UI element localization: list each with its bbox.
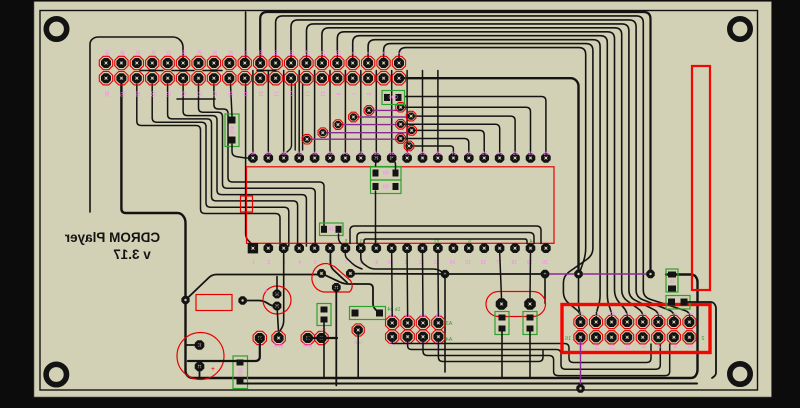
wire dense bundle line 2 xyxy=(294,84,296,150)
svg-text:10: 10 xyxy=(388,260,394,266)
svg-text:7: 7 xyxy=(350,92,356,95)
svg-text:14: 14 xyxy=(593,344,599,350)
IC U1 top row pads xyxy=(248,153,551,163)
wire gnd left link xyxy=(188,338,260,361)
svg-text:33: 33 xyxy=(149,91,155,97)
LED column pad 1 with red ring xyxy=(396,102,406,112)
svg-text:Y1: Y1 xyxy=(433,239,439,245)
resistor R3 xyxy=(317,304,331,326)
resistor R5 xyxy=(523,312,537,335)
wire purple net bottom xyxy=(542,273,651,275)
resistor R4 xyxy=(495,312,509,335)
svg-text:3: 3 xyxy=(360,239,363,245)
wire vertical net to IC pin 35 xyxy=(329,71,331,153)
svg-text:29: 29 xyxy=(180,91,186,97)
wire elbow to IC pin 21 xyxy=(405,97,546,153)
wire dense bundle line 1 xyxy=(287,84,292,152)
wire junction E stub down xyxy=(544,274,546,303)
svg-text:11: 11 xyxy=(609,311,615,316)
svg-text:30: 30 xyxy=(180,50,186,56)
LED D1 pad with red ring xyxy=(302,134,312,144)
wire purple trace LED2 xyxy=(323,132,412,134)
wire purple trace LED3 xyxy=(338,124,401,126)
svg-text:13: 13 xyxy=(593,311,599,317)
LED D4 pad with red ring xyxy=(349,112,359,122)
wire left long net from header col2 xyxy=(121,84,697,378)
svg-text:9: 9 xyxy=(375,260,378,266)
svg-text:36: 36 xyxy=(134,50,140,56)
IC U1 pin1 notch xyxy=(241,196,253,212)
wire 1k stub xyxy=(339,234,345,246)
wire X1 col4 up xyxy=(437,253,440,316)
wire vertical net to IC pin 33 xyxy=(360,71,362,153)
svg-text:gnd: gnd xyxy=(274,343,283,349)
wire purple trace LED4 xyxy=(353,116,411,118)
wire vertical net to IC pin 36 xyxy=(314,71,316,153)
wire staircase trace col8 xyxy=(214,84,324,227)
resistor R6 xyxy=(666,269,678,292)
node junction C xyxy=(574,270,582,278)
svg-text:40: 40 xyxy=(103,50,109,56)
LED D3 pad with red ring xyxy=(333,120,343,130)
wire bottom power trace xyxy=(240,383,697,385)
wire X1 col1 down bundle xyxy=(392,342,651,363)
svg-text:10k: 10k xyxy=(229,126,235,135)
wire X1 col4 down bundle xyxy=(438,342,543,362)
wire staircase trace col5 xyxy=(168,84,298,246)
svg-text:12: 12 xyxy=(419,260,425,266)
svg-text:7: 7 xyxy=(344,260,347,266)
resistor R10 00 xyxy=(371,167,402,181)
svg-text:A4: A4 xyxy=(446,337,453,343)
LED column pad 4 with red ring xyxy=(407,126,417,136)
svg-text:4: 4 xyxy=(298,260,301,266)
svg-text:31: 31 xyxy=(165,91,171,97)
svg-text:7: 7 xyxy=(640,312,646,315)
wire bus top trace 10 xyxy=(399,48,586,274)
mounting hole bottom-left xyxy=(46,364,66,384)
wire bus top trace 1 xyxy=(260,12,650,274)
wire IC pin7 merge xyxy=(345,251,362,269)
svg-text:gnd: gnd xyxy=(303,343,312,349)
wire purple trace LED5 xyxy=(369,109,401,111)
svg-text:16: 16 xyxy=(288,50,294,56)
resistor R11 00 xyxy=(371,180,402,194)
svg-text:38: 38 xyxy=(281,151,287,157)
wire bus top trace 3 xyxy=(291,20,674,322)
mounting hole bottom-right xyxy=(730,364,750,384)
LED column pad 3 with red ring xyxy=(396,120,406,130)
wire vertical net to IC pin 28 xyxy=(437,71,439,153)
svg-text:11: 11 xyxy=(319,91,325,96)
LED D5 pad with red ring xyxy=(364,106,374,116)
svg-text:25: 25 xyxy=(211,91,217,97)
IC U1 top pin labels xyxy=(250,151,549,157)
svg-text:00: 00 xyxy=(383,184,389,190)
wire C3 pad1 up xyxy=(500,253,502,298)
wire C3 pad2 up xyxy=(529,253,532,298)
wire C2 down xyxy=(277,306,279,333)
svg-text:31: 31 xyxy=(389,151,395,157)
svg-text:16: 16 xyxy=(565,336,571,342)
svg-text:20: 20 xyxy=(257,50,263,56)
svg-text:23: 23 xyxy=(512,151,518,157)
svg-text:1k: 1k xyxy=(669,279,675,285)
transistor Q1 outline xyxy=(312,263,352,292)
svg-text:22: 22 xyxy=(528,151,534,157)
connector X1 labels top xyxy=(389,314,441,320)
svg-text:+: + xyxy=(264,288,268,295)
connector J2 labels top xyxy=(578,311,693,317)
gnd cluster labels xyxy=(258,343,322,349)
wire bus top trace 9 xyxy=(384,44,593,322)
wire staircase trace col7 xyxy=(199,84,316,246)
wire out down xyxy=(357,335,359,378)
wire vertical net to IC pin 29 xyxy=(422,71,424,153)
resistor R7 xyxy=(666,296,690,310)
svg-text:2: 2 xyxy=(686,345,692,348)
wire Q1 collector right xyxy=(350,273,445,275)
resistor R9 000 xyxy=(382,91,405,105)
mounting hole top-right xyxy=(730,19,750,39)
svg-text:5: 5 xyxy=(365,92,371,95)
svg-text:9: 9 xyxy=(624,312,630,315)
svg-text:32: 32 xyxy=(165,50,171,56)
wire vertical net to IC pin 38 xyxy=(283,71,285,153)
wire elbow to IC pin 24 xyxy=(401,124,500,152)
connector J2 bottom row pads xyxy=(574,331,696,344)
IC U1 bottom row pads xyxy=(248,243,551,253)
svg-text:2: 2 xyxy=(396,51,402,54)
wire bus top trace 8 xyxy=(368,40,600,322)
node junction B xyxy=(441,270,449,278)
svg-text:5: 5 xyxy=(655,312,661,315)
svg-text:35: 35 xyxy=(327,151,333,157)
svg-text:25: 25 xyxy=(481,151,487,157)
svg-text:13: 13 xyxy=(434,260,440,266)
svg-text:CDROM Player: CDROM Player xyxy=(64,230,160,245)
svg-text:13: 13 xyxy=(304,91,310,97)
wire junction C down to J2 pin1 xyxy=(579,274,581,321)
wire header col10 down xyxy=(246,84,253,245)
svg-text:10: 10 xyxy=(624,344,630,350)
svg-text:26: 26 xyxy=(211,50,217,56)
wire vertical net to IC pin 32 xyxy=(375,71,377,153)
node junction E xyxy=(541,270,549,278)
connector J2 labels bottom xyxy=(578,344,693,350)
wire X1 col3 down bundle xyxy=(423,342,670,376)
wire C2 up xyxy=(276,277,278,295)
svg-text:100: 100 xyxy=(237,368,243,377)
svg-text:6: 6 xyxy=(468,239,471,245)
wire elbow to IC pin 26 xyxy=(401,139,469,153)
svg-text:A3: A3 xyxy=(446,321,453,327)
wire bus top trace 6 xyxy=(337,32,627,322)
svg-text:1k x4: 1k x4 xyxy=(387,307,400,313)
wire R3 down xyxy=(323,322,325,378)
header J1 bottom row pads with red rings xyxy=(99,72,405,85)
svg-text:-: - xyxy=(320,343,322,349)
wire C1 bottom link xyxy=(199,367,201,379)
wire transistor diag to R2 xyxy=(322,273,379,312)
LED column pad 6 with red ring xyxy=(404,141,414,151)
wire dense bundle line 3 xyxy=(302,84,304,150)
connector J2 thick outline xyxy=(562,305,710,353)
wire R8 up link xyxy=(231,84,233,116)
wire IC interior elbow 3 xyxy=(364,239,527,244)
svg-text:5: 5 xyxy=(314,260,317,266)
svg-text:20: 20 xyxy=(542,260,548,266)
capacitor C1 outline big xyxy=(177,333,224,380)
svg-text:12: 12 xyxy=(609,344,615,350)
connector X1 pads 4x2 with red rings xyxy=(386,316,446,343)
resistor R1 100 xyxy=(233,356,248,389)
svg-text:15: 15 xyxy=(465,260,471,266)
svg-text:18: 18 xyxy=(273,50,279,56)
wire vertical net to IC pin 34 xyxy=(344,71,346,153)
svg-text:38: 38 xyxy=(118,50,124,56)
svg-text:40: 40 xyxy=(250,151,256,157)
svg-text:14: 14 xyxy=(304,50,310,56)
IC U1 bottom pin labels xyxy=(252,260,548,266)
wire X1 col2 up xyxy=(406,253,409,316)
svg-text:5: 5 xyxy=(344,239,347,245)
wire IC pin3 down to gnd pad xyxy=(279,251,284,333)
wire net junction to transistor xyxy=(186,275,319,301)
wire X1 col2 down bundle xyxy=(408,342,661,369)
svg-text:000: 000 xyxy=(389,95,398,101)
wire IC interior elbow 1 xyxy=(350,226,541,244)
svg-text:24: 24 xyxy=(497,151,503,157)
svg-text:37: 37 xyxy=(118,91,124,97)
wire bus top trace 2 xyxy=(276,16,690,322)
wire vertical net to IC pin 30 xyxy=(406,71,408,153)
wire right net to purple junction xyxy=(445,273,542,275)
IC U1 green net labels above bottom pads xyxy=(344,239,532,245)
wire purple trace LED1 xyxy=(307,138,401,140)
wire junction B down xyxy=(444,274,446,372)
node junction A xyxy=(181,296,189,304)
svg-text:26: 26 xyxy=(466,151,472,157)
wire header inter-row jog 4 xyxy=(257,70,276,72)
wire left upper L net xyxy=(90,37,183,212)
svg-text:27: 27 xyxy=(196,91,202,97)
wire bus top trace 5 xyxy=(322,28,643,322)
svg-text:21: 21 xyxy=(242,91,248,97)
wire R8 down link xyxy=(232,144,250,158)
wire header inter-row jog 3 xyxy=(203,70,222,72)
pad out with red ring xyxy=(352,324,364,336)
svg-text:4: 4 xyxy=(671,345,677,348)
svg-text:6: 6 xyxy=(655,345,661,348)
wire purple J2 pin down xyxy=(580,341,582,386)
wire R4 down xyxy=(501,331,503,378)
transistor Q1 pads xyxy=(317,269,355,292)
wire IC pin6 diag xyxy=(330,251,347,283)
wire staircase trace col6 xyxy=(183,84,306,246)
wire header inter-row jog 2 xyxy=(172,70,194,72)
wire bus top trace 7 xyxy=(353,36,612,322)
LED D2 pad with red ring xyxy=(318,128,328,138)
node junction D xyxy=(646,270,654,278)
pad row gnd cluster xyxy=(253,331,328,344)
svg-text:24: 24 xyxy=(226,50,232,56)
svg-text:15: 15 xyxy=(578,311,584,317)
svg-text:30: 30 xyxy=(404,151,410,157)
svg-text:9: 9 xyxy=(334,92,340,95)
svg-text:2: 2 xyxy=(267,260,270,266)
wire R7 right down xyxy=(684,302,716,378)
svg-text:37: 37 xyxy=(296,151,302,157)
header J1 top row pads with red rings xyxy=(99,56,405,69)
svg-text:3: 3 xyxy=(671,312,677,315)
svg-text:16: 16 xyxy=(480,260,486,266)
connector J2 top row pads xyxy=(574,315,696,328)
svg-text:12: 12 xyxy=(319,50,325,56)
svg-text:27: 27 xyxy=(451,151,457,157)
svg-text:14: 14 xyxy=(450,260,456,266)
wire R5 down xyxy=(529,331,531,378)
wire vertical net to IC pin 39 xyxy=(267,71,269,153)
svg-text:+: + xyxy=(211,366,215,373)
wire staircase trace col3 xyxy=(137,84,280,246)
svg-text:34: 34 xyxy=(149,50,155,56)
LED column pad 5 with red ring xyxy=(396,134,406,144)
wire thick net from header pin 40 to bottom junction xyxy=(399,78,579,274)
svg-text:8: 8 xyxy=(640,345,646,348)
svg-text:19: 19 xyxy=(527,260,533,266)
svg-text:4: 4 xyxy=(381,51,387,54)
node pad bottom purple xyxy=(576,384,584,392)
svg-text:v 3.17: v 3.17 xyxy=(113,247,151,262)
svg-text:33: 33 xyxy=(358,151,364,157)
wire header under-row jog 5 xyxy=(177,98,215,100)
wire gnd cluster link xyxy=(308,337,337,339)
wire staircase trace col4 xyxy=(152,84,289,246)
svg-text:17: 17 xyxy=(273,91,279,97)
wire vertical net to IC pin 37 xyxy=(298,71,300,153)
wire elbow to IC pin 25 xyxy=(412,130,485,152)
wire R10 right link xyxy=(392,158,396,169)
header J1 pin labels top xyxy=(103,50,402,56)
capacitor C1 pads xyxy=(195,340,205,371)
svg-text:35: 35 xyxy=(134,91,140,97)
svg-text:00: 00 xyxy=(383,171,389,177)
svg-text:28: 28 xyxy=(196,50,202,56)
svg-text:39: 39 xyxy=(266,151,272,157)
wire R11 link down xyxy=(375,191,377,243)
capacitor C2 pads xyxy=(273,290,282,311)
svg-text:10: 10 xyxy=(334,50,340,56)
svg-text:34: 34 xyxy=(343,151,349,157)
svg-text:1: 1 xyxy=(686,312,692,315)
wire vertical net to IC pin 40 xyxy=(252,71,254,153)
svg-text:32: 32 xyxy=(374,151,380,157)
svg-text:11: 11 xyxy=(404,260,409,266)
svg-text:1: 1 xyxy=(252,260,255,266)
wire Q1 emitter down xyxy=(335,287,337,385)
silkscreen rectangle component outline xyxy=(196,295,232,311)
wire header inter-row jog 1 xyxy=(140,70,163,72)
svg-text:6: 6 xyxy=(365,51,371,54)
capacitor C2 outline xyxy=(263,286,291,314)
mounting hole top-left xyxy=(46,19,66,39)
svg-text:23: 23 xyxy=(226,91,232,97)
svg-text:1k: 1k xyxy=(328,227,334,233)
capacitor C3 pads xyxy=(496,298,536,310)
resistor R12 1k xyxy=(320,223,344,236)
svg-text:8: 8 xyxy=(350,51,356,54)
node pad right of rectangle xyxy=(238,296,246,304)
silkscreen tall rectangle outline xyxy=(692,66,710,290)
header J1 pin labels bottom xyxy=(103,91,402,97)
connector X1 labels bottom xyxy=(389,342,442,348)
wire C1 top link xyxy=(186,344,200,346)
resistor R8 10k xyxy=(225,114,239,147)
wire elbow to IC pin 23 xyxy=(411,116,515,152)
svg-text:19: 19 xyxy=(257,91,263,97)
LED column pad 2 with red ring xyxy=(406,111,416,121)
svg-text:39: 39 xyxy=(103,91,109,97)
svg-text:15: 15 xyxy=(288,91,294,97)
wire bus top trace 4 xyxy=(307,24,659,322)
svg-text:29: 29 xyxy=(420,151,426,157)
svg-text:36: 36 xyxy=(312,151,318,157)
wire pad to C2 xyxy=(243,301,277,307)
svg-text:18: 18 xyxy=(511,260,517,266)
wire elbow to IC pin 22 xyxy=(401,107,531,152)
capacitor C3 oval outline xyxy=(486,292,546,317)
wire vertical net to IC pin 31 xyxy=(391,71,393,153)
svg-text:2: 2 xyxy=(701,336,704,342)
IC U1 silkscreen outline xyxy=(247,167,555,244)
wire IC interior elbow 2 xyxy=(357,233,534,244)
svg-text:4: 4 xyxy=(530,239,533,245)
wire IC pin8 S-curve xyxy=(361,251,444,273)
wire X1 col3 up xyxy=(422,253,425,316)
svg-text:22: 22 xyxy=(242,50,248,56)
wire elbow to IC pin 27 xyxy=(409,146,453,152)
svg-text:21: 21 xyxy=(543,151,549,157)
svg-text:28: 28 xyxy=(435,151,441,157)
resistor R2 1kx4 xyxy=(350,307,386,320)
wire R10 link up xyxy=(375,158,378,166)
wire stub header col10 xyxy=(245,12,247,63)
wire X1 col1 up xyxy=(391,253,394,316)
